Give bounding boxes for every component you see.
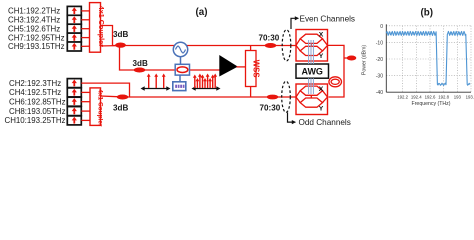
4x1 coupler box (odd group)	[90, 3, 106, 53]
svg-text:AWG: AWG	[301, 67, 323, 77]
svg-text:-20: -20	[376, 57, 383, 63]
input comb spectrum axis	[141, 74, 171, 91]
PDM modulator box top (even)	[296, 30, 328, 62]
svg-text:Even Channels: Even Channels	[300, 15, 356, 24]
laser box	[67, 15, 81, 24]
polarization controller dashed ellipse top	[282, 30, 291, 61]
svg-text:CH10:193.25THz: CH10:193.25THz	[5, 116, 66, 125]
Odd Channels arrow	[288, 113, 293, 123]
main bottom line (even) to 70:30	[120, 96, 297, 98]
laser box	[67, 107, 81, 116]
laser box	[67, 88, 81, 97]
svg-text:-10: -10	[376, 40, 383, 46]
laser boxes group 2	[67, 79, 81, 125]
main top line (odd) to 70:30	[118, 45, 297, 47]
svg-text:(b): (b)	[421, 7, 434, 18]
svg-text:CH4:192.5THz: CH4:192.5THz	[9, 88, 61, 97]
svg-text:193: 193	[454, 95, 462, 100]
svg-text:4x1 Coupler: 4x1 Coupler	[97, 89, 104, 127]
main middle line to amplifier	[135, 69, 220, 71]
svg-text:CH1:192.2THz: CH1:192.2THz	[8, 7, 60, 16]
wire CH10 to coupler2	[81, 119, 90, 121]
wire CH1 to coupler1	[81, 10, 90, 12]
wire CH8 to coupler2	[81, 110, 90, 112]
polarization controller dashed ellipse bottom	[282, 81, 291, 112]
svg-text:CH8:193.05THz: CH8:193.05THz	[9, 107, 66, 116]
amplifier triangle	[219, 55, 238, 77]
svg-text:X: X	[319, 31, 324, 38]
MZM arm link top box	[310, 43, 312, 46]
70:30 coupler bottom	[267, 95, 279, 100]
spectrum plot	[362, 24, 474, 107]
svg-text:Y: Y	[319, 53, 324, 60]
wire amp to WSS	[237, 66, 246, 68]
3dB coupler ellipse e1	[115, 43, 126, 48]
laser box	[67, 33, 81, 42]
svg-text:4x1 Coupler: 4x1 Coupler	[97, 6, 106, 47]
4x1 coupler box (even group)	[90, 88, 104, 127]
svg-text:-30: -30	[376, 74, 383, 80]
MZM arm link bottom box	[310, 95, 312, 98]
svg-text:193.2: 193.2	[466, 95, 474, 100]
svg-text:3dB: 3dB	[133, 59, 148, 68]
laser box	[67, 97, 81, 106]
svg-text:CH6:192.85THz: CH6:192.85THz	[9, 97, 66, 106]
laser box	[67, 42, 81, 51]
svg-text:CH5:192.6THz: CH5:192.6THz	[8, 24, 60, 33]
MZM comb generator box	[175, 64, 189, 82]
AWG box	[296, 64, 329, 78]
svg-text:192.8: 192.8	[438, 95, 449, 100]
PDM modulator box bottom (odd)	[296, 84, 328, 115]
wire WSS top output	[250, 46, 252, 51]
WSS box	[246, 51, 261, 87]
svg-text:192.4: 192.4	[411, 95, 422, 100]
laser box	[67, 6, 81, 15]
svg-text:3dB: 3dB	[113, 103, 128, 112]
laser box	[67, 79, 81, 88]
70:30 coupler top	[265, 43, 277, 48]
wire CH2 bypass to 3dB	[81, 83, 129, 97]
svg-text:X: X	[319, 86, 324, 93]
svg-text:Odd Channels: Odd Channels	[299, 118, 351, 127]
wire WSS bottom output	[250, 87, 252, 98]
svg-text:CH3:192.4THz: CH3:192.4THz	[8, 16, 60, 25]
svg-text:CH7:192.95THz: CH7:192.95THz	[8, 33, 65, 42]
svg-text:70:30: 70:30	[260, 103, 281, 112]
coupler dot on vertical	[344, 57, 347, 59]
svg-text:Power (dBm): Power (dBm)	[362, 45, 368, 76]
wire CH9 under coupler1 to 3dB	[81, 45, 116, 48]
3dB coupler ellipse e3	[117, 95, 129, 100]
wire CH6 to coupler2	[81, 101, 90, 103]
3dB coupler ellipse e2	[134, 68, 146, 73]
laser box	[67, 116, 81, 125]
svg-text:192.6: 192.6	[425, 95, 436, 100]
wire CH4 to coupler2	[81, 91, 90, 93]
vertical tap from ellipse1 down	[120, 46, 135, 71]
svg-text:3dB: 3dB	[113, 30, 128, 39]
Even Channels arrow	[291, 18, 295, 29]
svg-text:WSS: WSS	[251, 60, 260, 78]
laser box	[67, 24, 81, 33]
AWG drive lines top	[309, 40, 314, 64]
svg-text:CH9:193.15THz: CH9:193.15THz	[8, 42, 65, 51]
svg-text:70:30: 70:30	[259, 33, 280, 42]
AWG drive lines bottom	[309, 78, 314, 94]
svg-text:CH2:192.3THz: CH2:192.3THz	[9, 79, 61, 88]
svg-text:(a): (a)	[196, 7, 208, 18]
svg-text:Y: Y	[319, 105, 324, 112]
wire top modulator output down to bottom output	[327, 45, 344, 97]
svg-text:-40: -40	[376, 90, 383, 96]
svg-text:192.2: 192.2	[397, 95, 408, 100]
wire CH7 to coupler1	[81, 37, 90, 39]
wire coupler1 output	[100, 26, 116, 46]
svg-text:0: 0	[380, 24, 383, 30]
wire CH3 to coupler1	[81, 19, 90, 21]
fiber coil	[329, 77, 342, 87]
svg-text:Frequency (THz): Frequency (THz)	[412, 101, 451, 107]
RF oscillator	[173, 42, 187, 64]
wire coupler2 output	[101, 95, 118, 98]
wire CH5 to coupler1	[81, 28, 90, 30]
pattern generator box	[173, 82, 186, 91]
output comb spectrum axis	[192, 74, 221, 91]
laser boxes group 1	[67, 6, 81, 51]
